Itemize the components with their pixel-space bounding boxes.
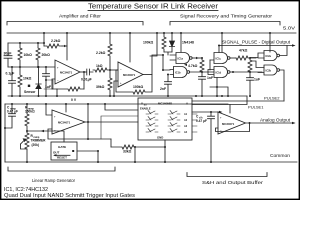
wire op2 +input ground (114, 81, 118, 96)
svg-text:Quad Dual Input NAND Schmitt T: Quad Dual Input NAND Schmitt Trigger Inp… (4, 193, 135, 199)
nand IC1d (208, 67, 228, 78)
wire rail to box pin x105 (105, 104, 138, 110)
net Analog Output label (260, 117, 291, 122)
wire 33k to common (134, 147, 136, 162)
junction dots bottom (4, 103, 251, 163)
wire IC1a out (192, 57, 202, 59)
capacitor 1nF right (199, 72, 206, 96)
svg-text:0.01μF: 0.01μF (81, 78, 92, 82)
wire op4 power (229, 105, 231, 114)
wire feedback up to output (83, 72, 85, 89)
wire op1 -input stub (52, 79, 55, 89)
wire IC1b out (190, 71, 214, 73)
capacitor 1nF left (165, 75, 172, 97)
wire op3 power (65, 104, 67, 112)
nand IC1a (170, 53, 190, 64)
svg-text:1kΩ: 1kΩ (96, 64, 103, 68)
wire 5V top rail (7, 32, 296, 34)
resistor feedback op1 (52, 87, 84, 91)
svg-text:33kΩ: 33kΩ (123, 150, 132, 154)
capacitor 1uF one-shot (247, 72, 254, 96)
resistor 20k upper (36, 43, 40, 67)
svg-text:V: V (141, 102, 143, 106)
wire trimmer top to gate box (27, 131, 64, 142)
resistor 10k lower (18, 67, 22, 96)
resistor 47k series (236, 56, 256, 60)
wire bias rail y43 (8, 42, 44, 44)
wire common rail (5, 161, 297, 163)
section label Signal Recovery and Timing Generator (180, 14, 273, 19)
svg-text:IC2a: IC2a (266, 54, 272, 58)
svg-text:Signal Recovery and Timing Gen: Signal Recovery and Timing Generator (180, 14, 273, 19)
nand IC1c (210, 53, 228, 64)
wire arrow into op1 (62, 45, 67, 47)
wire x88 rail to out (87, 104, 89, 139)
photodiode IR sensor (36, 67, 41, 96)
svg-text:30pF: 30pF (4, 52, 12, 56)
svg-text:2nF: 2nF (160, 87, 166, 91)
wire cross couple (252, 61, 264, 68)
svg-text:MC34071: MC34071 (58, 121, 71, 125)
svg-text:47kΩ: 47kΩ (239, 49, 248, 53)
svg-text:GATE: GATE (58, 145, 66, 149)
svg-text:39kΩ: 39kΩ (96, 85, 105, 89)
resistor R_ramp 150k (25, 104, 29, 131)
svg-text:0.1μF: 0.1μF (6, 72, 15, 76)
wire box pin y116 (101, 116, 138, 139)
capacitor 1uF input (43, 67, 50, 96)
svg-text:IC1b: IC1b (175, 71, 181, 75)
op-amp U1 (55, 60, 80, 84)
svg-text:1nF: 1nF (207, 76, 213, 80)
resistor 2.2k vertical (108, 33, 112, 70)
wire lower supply rail (5, 103, 228, 105)
svg-text:MC34071: MC34071 (222, 122, 235, 126)
wire op1 power (66, 33, 68, 60)
svg-text:RESET: RESET (57, 156, 67, 160)
resistor 10k upper (18, 43, 22, 67)
nand IC2b (258, 65, 277, 75)
svg-text:2.2kΩ: 2.2kΩ (96, 51, 106, 55)
resistor 100k feedback op2 (116, 70, 152, 94)
resistor 100k pullup (162, 33, 166, 52)
wire box pin stubs right (192, 114, 197, 132)
svg-text:1uF: 1uF (45, 85, 51, 89)
wire x98 out to common (97, 151, 99, 162)
wire node to IC1b (163, 55, 170, 70)
svg-text:ENABLE: ENABLE (140, 107, 151, 111)
wire left edge vertical (4, 104, 6, 162)
title Temperature Sensor IR Link Receiver (88, 4, 219, 11)
resistor 39k vertical (108, 70, 112, 96)
wire op4 feedback (216, 123, 250, 132)
svg-text:MC14066B: MC14066B (158, 102, 172, 106)
capacitor C_ramp 0.47uF (5, 104, 16, 128)
svg-text:PULSE1: PULSE1 (248, 104, 264, 109)
resistor 1k series (93, 68, 110, 72)
svg-text:Temperature Sensor IR Link Rec: Temperature Sensor IR Link Receiver (88, 4, 219, 11)
wire op3 output (85, 121, 138, 123)
resistor 2.2k horizontal top (44, 44, 62, 48)
wire top ground rail (8, 95, 247, 97)
capacitor 0.01uF coupling (87, 69, 93, 75)
wire IC1d ground leg (210, 78, 228, 97)
wire rail43 to 5V (43, 33, 45, 46)
svg-text:Linear Ramp Generator: Linear Ramp Generator (32, 178, 76, 183)
wire IC1c out (230, 57, 236, 59)
wire hook IC1c in2 (209, 60, 211, 70)
wire loop down (110, 139, 112, 147)
svg-text:A: A (186, 102, 188, 106)
nand IC1b (170, 67, 187, 78)
svg-text:150kΩ: 150kΩ (25, 110, 35, 114)
svg-text:Amplifier and Filter: Amplifier and Filter (59, 14, 102, 19)
wire IC2a power (269, 33, 271, 52)
svg-text:2.2kΩ: 2.2kΩ (51, 39, 61, 43)
resistor 4.7k one-shot (200, 58, 204, 72)
svg-text:IC1d: IC1d (216, 71, 222, 75)
svg-text:(20k): (20k) (32, 143, 39, 147)
wire IC1c power (221, 33, 223, 52)
svg-text:S&H and Output Buffer: S&H and Output Buffer (202, 180, 264, 185)
junction dots (11, 32, 271, 97)
bracket amplifier section (7, 22, 143, 26)
wire gate power x181 (180, 33, 182, 52)
section label Amplifier and Filter (59, 14, 102, 19)
switch symbols left column (146, 111, 158, 133)
svg-text:TRIMMER: TRIMMER (31, 139, 47, 143)
wire op4 output (246, 122, 295, 124)
svg-text:100kΩ: 100kΩ (133, 85, 144, 89)
diode 1N4148 (169, 33, 174, 52)
caption IC note (4, 187, 135, 199)
border frame (1, 1, 300, 200)
wire op1 output (80, 71, 86, 73)
svg-text:OUT: OUT (53, 151, 60, 155)
wire op3 +input (46, 104, 52, 115)
svg-text:10kΩ: 10kΩ (23, 77, 32, 81)
trimmer R_ramp 20k (25, 131, 29, 162)
wire op2 power (129, 33, 131, 62)
svg-text:MC34071: MC34071 (123, 73, 136, 77)
wire gates vcc drop x157 (150, 33, 157, 56)
svg-text:1uF: 1uF (254, 78, 260, 82)
pin labels right (184, 113, 188, 134)
svg-text:SIGNAL_PULSE - Digital Output: SIGNAL_PULSE - Digital Output (222, 40, 291, 45)
wire op3 -input loop (48, 129, 111, 139)
svg-text:PULSE2: PULSE2 (264, 96, 280, 101)
wire box gnd (164, 140, 166, 162)
wire sh node (192, 111, 219, 113)
svg-text:IC2b: IC2b (266, 69, 272, 73)
svg-text:IC1c: IC1c (216, 57, 222, 61)
svg-text:0.47 μF: 0.47 μF (7, 110, 18, 114)
svg-text:5.0V: 5.0V (283, 26, 296, 31)
net SIGNAL_PULSE label (222, 40, 291, 45)
svg-text:4.7kΩ: 4.7kΩ (188, 64, 198, 68)
capacitor 0.1uF input (9, 67, 16, 96)
wire pulse2 (192, 100, 284, 102)
op-amp U2 (118, 62, 143, 87)
svg-text:MC34071: MC34071 (60, 71, 73, 75)
ramp control box (51, 142, 77, 160)
svg-text:20kΩ: 20kΩ (42, 53, 51, 57)
wire box out (77, 150, 98, 152)
wire IC1d out (230, 71, 262, 73)
wire ground leg x57 (56, 89, 58, 96)
resistor 47k vertical one-shot (248, 58, 252, 72)
svg-text:100kΩ: 100kΩ (143, 41, 154, 45)
bracket linear ramp generator (8, 167, 115, 171)
wire op2 out up to gates (152, 55, 163, 75)
wire IC2a out to signal pulse (280, 46, 288, 56)
op-amp U4 (218, 112, 246, 134)
bracket signal recovery section (170, 22, 280, 26)
net 0V label (71, 98, 77, 102)
wire diode resistor join (164, 52, 172, 55)
op-amp U3 (52, 110, 85, 134)
nand IC2a (264, 51, 277, 61)
svg-text:0.47 μF: 0.47 μF (196, 119, 207, 123)
switch symbols right column (168, 111, 180, 133)
svg-text:Analog Output: Analog Output (260, 117, 291, 122)
wire into op2 (110, 69, 118, 71)
svg-text:10kΩ: 10kΩ (24, 53, 33, 57)
net Common label (270, 153, 291, 158)
svg-text:Sensor: Sensor (24, 90, 36, 94)
wire op2 output (143, 74, 152, 76)
wire into IC2a (250, 53, 264, 58)
svg-text:1N4148: 1N4148 (182, 41, 194, 45)
svg-text:IC1a: IC1a (178, 57, 184, 61)
wire IC2b out to pulse2 (280, 70, 285, 101)
resistor 33k (111, 145, 165, 149)
net 5.0V label (283, 26, 296, 31)
analog switch IC box MC14066B (138, 98, 192, 140)
svg-text:Common: Common (270, 153, 291, 158)
wire pulse1 (192, 96, 247, 105)
wire signal pulse (219, 46, 294, 53)
svg-text:0 V: 0 V (71, 98, 77, 102)
capacitor C_sh 0.47uF (208, 112, 215, 162)
svg-text:GND: GND (157, 136, 163, 140)
capacitor 30pF (4, 43, 12, 67)
bracket s and h section (187, 173, 267, 177)
wire bias line y67 (8, 66, 55, 68)
